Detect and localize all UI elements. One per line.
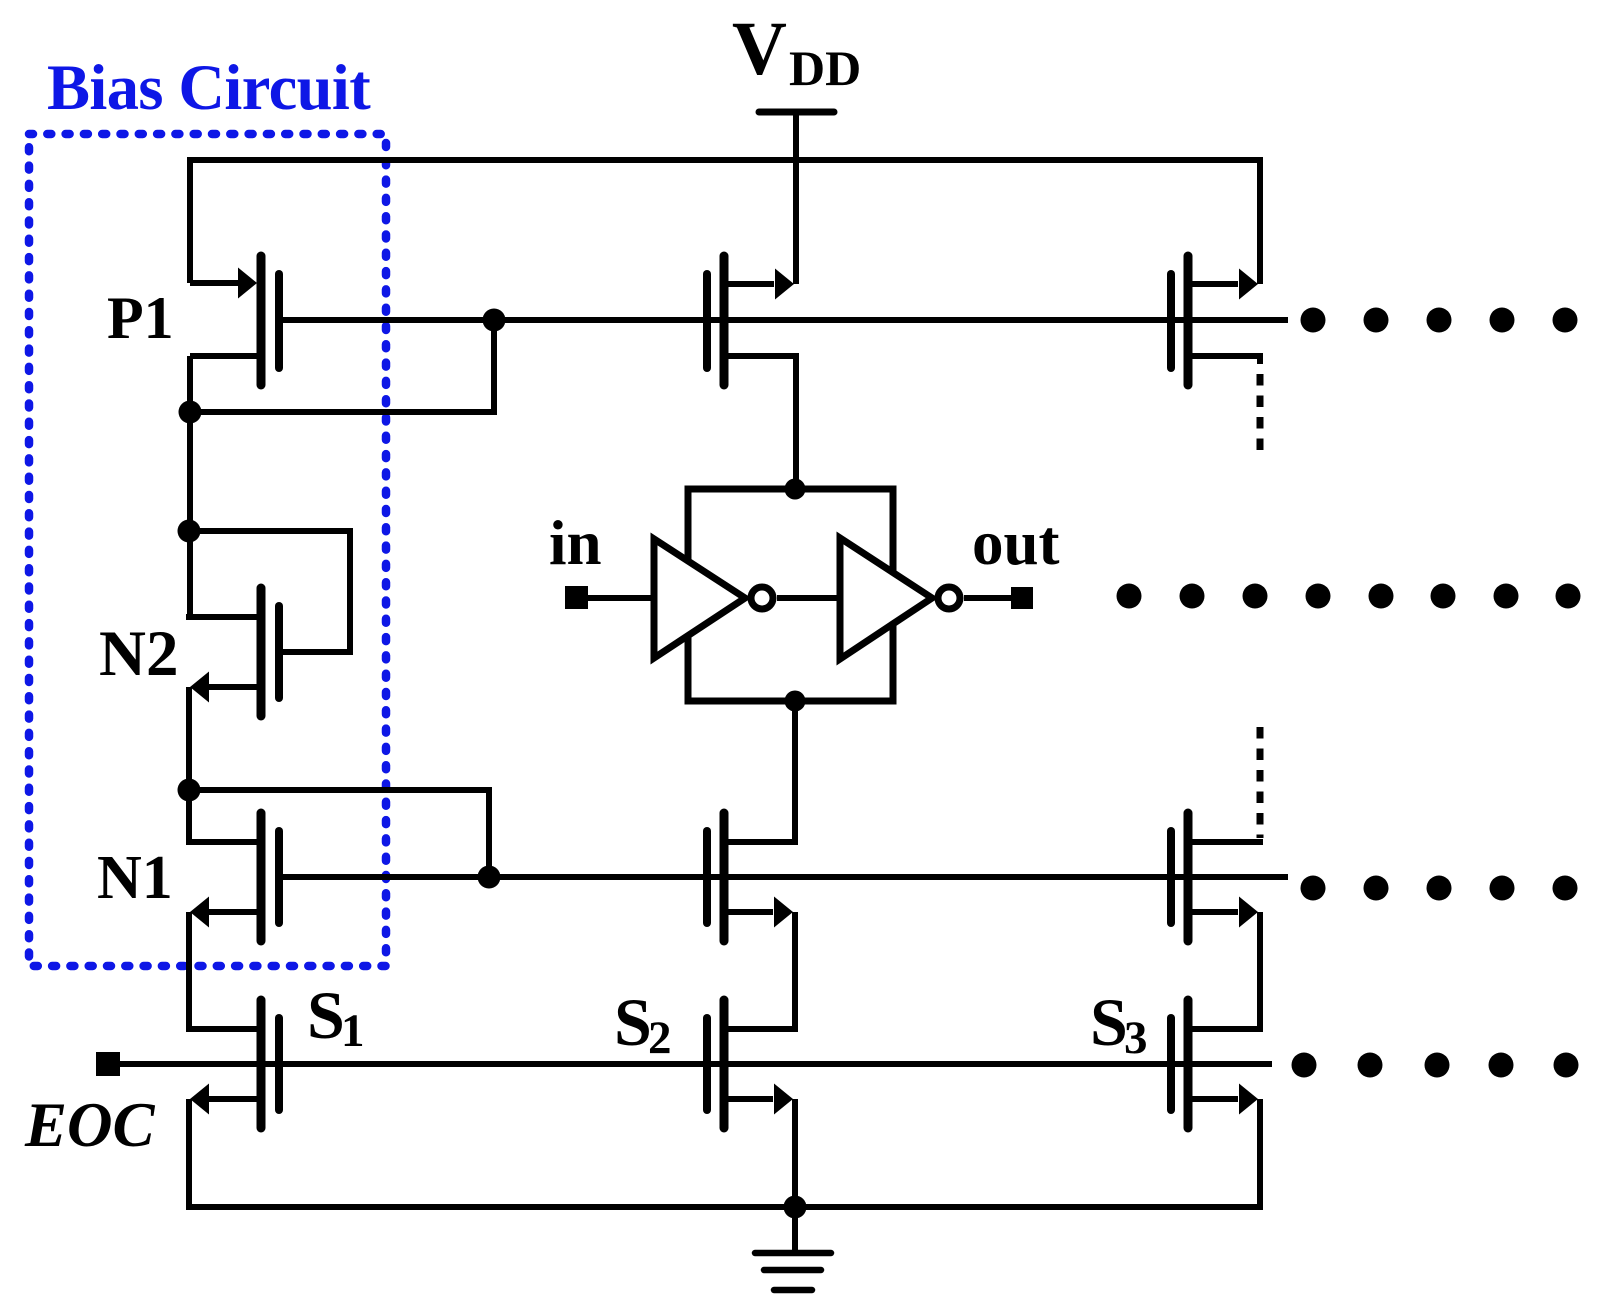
transistor N2: [186, 588, 279, 716]
wire N1 source stem down to S1: [186, 912, 192, 1032]
transistor PM mid (cell header PMOS): [707, 256, 799, 385]
wire N1 gate loop to rail: [189, 790, 489, 877]
wire EOC gate rail: [120, 1061, 1272, 1067]
transistor S2: [707, 1000, 798, 1128]
wire N2 source stem down to N1: [186, 687, 192, 845]
transistor N1: [186, 813, 279, 941]
svg-text:P1: P1: [107, 285, 174, 351]
ellipsis dots row 4 (EOC rail): [1292, 1053, 1579, 1078]
node P1 drain dot: [179, 401, 202, 424]
svg-text:S: S: [614, 984, 652, 1060]
ellipsis dots row 3 (N1 gate rail): [1301, 876, 1578, 901]
svg-text:in: in: [549, 508, 602, 578]
wire cell bottom stem: [792, 701, 798, 845]
wire NMOS gate rail N1 (row B): [279, 874, 1288, 880]
svg-text:S: S: [1090, 984, 1128, 1060]
wire out: [964, 595, 1011, 601]
node ground junction dot: [784, 1196, 807, 1219]
terminal EOC square: [96, 1052, 120, 1076]
transistor NR right (repeat column NMOS): [1171, 813, 1263, 941]
inverter cell power box: [688, 489, 893, 701]
VDD supply bar symbol: [759, 109, 834, 116]
bubble U1: [751, 587, 773, 609]
svg-text:Bias Circuit: Bias Circuit: [47, 52, 371, 123]
transistor S3: [1171, 1000, 1263, 1128]
inverter U2: [840, 538, 932, 659]
bias circuit dashed boundary box: [29, 134, 386, 966]
terminal out square: [1011, 587, 1033, 609]
node cell bottom dot: [785, 691, 806, 712]
bubble U2: [938, 587, 960, 609]
svg-text:2: 2: [648, 1012, 672, 1064]
svg-text:1: 1: [341, 1005, 365, 1057]
wire top VDD rail with corner stems: [190, 160, 1260, 284]
wire dashed continuation lower: [1257, 727, 1264, 838]
inverter U1: [654, 539, 745, 658]
svg-text:N2: N2: [99, 618, 178, 690]
svg-text:V: V: [732, 7, 787, 91]
wire right PMOS drain stub: [1257, 356, 1263, 364]
terminal in square: [565, 586, 588, 609]
wire P1 drain stem down to N2: [187, 356, 193, 620]
wire VDD stem: [793, 112, 799, 284]
transistor S1: [186, 1000, 279, 1128]
wire bottom ground rail with corner stems: [189, 1099, 1260, 1207]
node N1 loop on gate rail dot: [478, 866, 501, 889]
svg-text:EOC: EOC: [24, 1090, 156, 1160]
node N1 drain dot: [178, 779, 201, 802]
ellipsis dots row 1 (PMOS gate rail): [1301, 308, 1578, 333]
wire mid NMOS source stem to S2: [792, 912, 798, 1032]
wire dashed continuation upper: [1257, 374, 1264, 457]
svg-text:S: S: [307, 977, 345, 1053]
wire P1 gate-drain loop: [190, 320, 494, 412]
svg-text:3: 3: [1124, 1012, 1148, 1064]
wire mid PMOS drain stem to cell: [793, 353, 799, 489]
svg-text:out: out: [972, 508, 1060, 578]
wire N2 gate-drain loop: [189, 531, 350, 652]
ground: [755, 1207, 831, 1290]
ellipsis dots row 2 (out line): [1117, 584, 1581, 609]
transistor NM mid (cell foot NMOS): [707, 813, 798, 941]
wire PMOS gate rail (row A): [279, 317, 1288, 323]
node P1 loop on gate rail dot: [483, 309, 506, 332]
wire inverter1 to inverter2: [777, 595, 840, 601]
svg-text:DD: DD: [789, 40, 861, 96]
svg-text:N1: N1: [97, 844, 173, 912]
node cell top dot: [785, 479, 806, 500]
node N2 drain dot: [178, 520, 201, 543]
wire in to inverter1: [588, 595, 654, 601]
transistor PR right (repeat column PMOS): [1171, 256, 1263, 385]
transistor P1: [190, 256, 279, 385]
wire right NMOS source stem to S3: [1257, 912, 1263, 1032]
wire S2 source stem to ground rail: [792, 1099, 798, 1207]
